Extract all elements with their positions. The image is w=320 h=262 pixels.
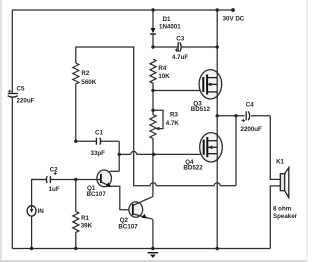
node junction Q4 source / bottom rail [216, 247, 219, 250]
svg-text:Speaker: Speaker [273, 213, 298, 220]
speaker K1 [270, 116, 297, 249]
mosfet Q4 [183, 133, 222, 172]
node junction top rail / right vertical [216, 8, 219, 11]
node junction R1 / bottom rail [74, 247, 77, 250]
node junction IN / bottom rail [30, 247, 33, 250]
svg-text:R4: R4 [158, 65, 166, 72]
svg-text:560K: 560K [81, 79, 96, 86]
resistor R2 [73, 63, 97, 87]
ground [148, 253, 159, 258]
transistor Q1 [87, 170, 112, 198]
wire Q2 collector [152, 154, 154, 196]
wire Q3 gate [153, 90, 203, 92]
capacitor C3 [172, 35, 188, 61]
svg-text:C1: C1 [95, 129, 103, 136]
wire top rail 30V [12, 9, 233, 11]
wire bottom rail [12, 248, 270, 250]
node junction emitter / bottom rail [151, 247, 154, 250]
svg-text:R2: R2 [81, 70, 89, 77]
svg-text:4.7K: 4.7K [166, 120, 180, 127]
svg-text:39K: 39K [81, 222, 93, 229]
node junction C3/right vertical [216, 45, 219, 48]
svg-text:C4: C4 [246, 102, 254, 109]
svg-text:BC107: BC107 [118, 223, 138, 230]
svg-text:IN: IN [38, 208, 45, 215]
svg-text:4.7uF: 4.7uF [172, 54, 188, 61]
svg-text:BD522: BD522 [183, 165, 203, 172]
node 30V DC supply endpoint [231, 8, 235, 12]
wire Q1 collector [110, 170, 119, 172]
svg-text:1N4001: 1N4001 [159, 23, 181, 30]
svg-text:30V DC: 30V DC [223, 15, 245, 22]
wire C1 to collector vertical [118, 141, 120, 171]
wire output row to C4 [217, 115, 270, 117]
svg-text:BD512: BD512 [191, 106, 211, 113]
wire left rail [11, 10, 13, 94]
node junction C1 / R2 leg [74, 140, 77, 143]
svg-text:8 ohm: 8 ohm [273, 206, 292, 213]
svg-text:1uF: 1uF [49, 186, 60, 193]
node junction gate row / C1-Q1 collector [118, 153, 121, 156]
node junction feedback tap [234, 114, 237, 117]
capacitor C1 [76, 129, 119, 157]
transistor Q2 [118, 197, 152, 231]
node junction gate row / R3 bottom / Q2 collector [152, 153, 155, 156]
mosfet Q3 [191, 70, 222, 114]
svg-text:BC107: BC107 [87, 191, 107, 198]
wire Q1 base [76, 179, 100, 181]
node junction D1/C3 [151, 45, 154, 48]
svg-text:K1: K1 [276, 158, 284, 165]
svg-text:R1: R1 [81, 215, 89, 222]
node junction output (Q3 source / Q4 drain) [216, 114, 219, 117]
wire feedback return [150, 116, 236, 186]
diode D1 [150, 10, 181, 47]
svg-text:10K: 10K [158, 73, 170, 80]
capacitor C4 [241, 102, 263, 133]
wire C3 row [153, 46, 217, 48]
svg-text:33pF: 33pF [91, 150, 106, 157]
capacitor C2 [32, 166, 76, 193]
wire feedback box top [75, 87, 77, 141]
svg-text:D1: D1 [163, 16, 171, 23]
capacitor C5 [8, 86, 35, 105]
page edge shading [0, 0, 2, 262]
svg-text:2200uF: 2200uF [241, 126, 263, 133]
source IN [27, 180, 47, 249]
svg-text:220uF: 220uF [17, 98, 35, 105]
svg-text:R3: R3 [170, 111, 178, 118]
trimmer R3 [150, 91, 179, 155]
node junction top rail / D1 [151, 8, 154, 11]
svg-text:C3: C3 [176, 35, 184, 42]
node junction base/C2/R1/R2 [74, 178, 77, 181]
wire main right vertical [216, 10, 218, 249]
svg-text:C5: C5 [17, 86, 25, 93]
svg-text:C2: C2 [50, 166, 58, 173]
wire Q2 emitter to ground [152, 219, 154, 248]
resistor R1 [73, 180, 93, 249]
node junction R4 bottom / Q3 gate [151, 89, 154, 92]
resistor R4 [150, 59, 170, 90]
wire Q4 gate row [119, 151, 203, 154]
wire Q1 emitter to Q2 base [110, 186, 132, 210]
